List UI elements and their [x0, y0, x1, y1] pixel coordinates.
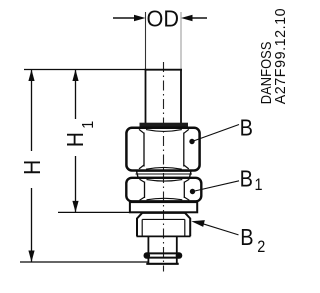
svg-text:A27F99.12.10: A27F99.12.10 [273, 8, 289, 104]
svg-text:2: 2 [257, 238, 265, 256]
svg-text:B: B [240, 223, 253, 250]
svg-text:B: B [240, 114, 253, 141]
svg-text:H: H [19, 160, 45, 175]
svg-text:1: 1 [79, 121, 97, 129]
svg-text:H: H [62, 132, 88, 147]
svg-text:B: B [240, 165, 253, 192]
svg-text:OD: OD [147, 5, 180, 31]
svg-text:1: 1 [255, 176, 263, 194]
svg-text:DANFOSS: DANFOSS [258, 41, 274, 104]
